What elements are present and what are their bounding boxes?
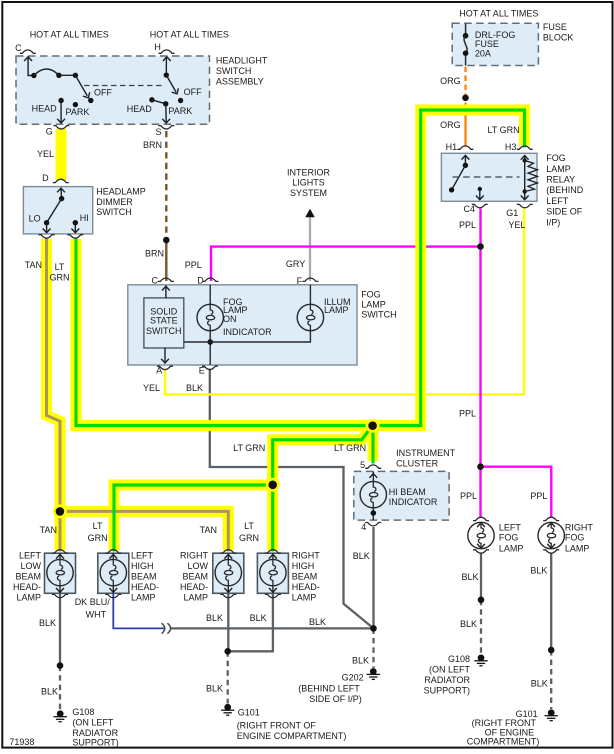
svg-text:BRN: BRN [143,140,162,150]
svg-text:71938: 71938 [9,737,34,747]
splice dot BLK left fog [478,597,485,604]
svg-text:PPL: PPL [185,260,202,270]
svg-text:YEL: YEL [508,220,525,230]
svg-text:C4: C4 [464,204,476,214]
svg-text:FOG: FOG [499,533,519,543]
svg-text:FOG: FOG [546,153,566,163]
link solid state switch to indicator [184,341,210,343]
fuse block box [452,23,538,65]
svg-text:SWITCH: SWITCH [146,326,182,336]
inline connector [162,623,171,633]
output line to S [165,104,167,123]
svg-text:HEADLIGHT: HEADLIGHT [216,56,268,66]
headlight switch internal: right feed arrow H [165,57,167,75]
svg-text:ASSEMBLY: ASSEMBLY [216,77,264,87]
svg-text:INDICATOR: INDICATOR [223,327,272,337]
svg-text:DK BLU/: DK BLU/ [75,597,111,607]
wire PPL relay C4 down to left fog lamp [479,209,481,518]
svg-text:SWITCH: SWITCH [361,310,397,320]
interior lights system arrow [305,209,315,217]
svg-text:D: D [42,173,49,183]
highlight band TAN wires [47,239,229,550]
svg-text:RADIATOR: RADIATOR [424,675,470,685]
svg-text:RIGHT: RIGHT [180,550,209,560]
svg-text:LT: LT [244,521,254,531]
svg-text:GRN: GRN [239,533,259,543]
svg-text:HI: HI [80,213,89,223]
wire BLK right high beam down [228,594,273,652]
svg-text:LEFT: LEFT [131,550,154,560]
svg-text:HEAD-: HEAD- [292,582,320,592]
svg-text:LAMP: LAMP [183,592,208,602]
relay wiper arm [452,165,466,190]
svg-text:LAMP: LAMP [324,305,349,315]
svg-text:C: C [152,276,159,286]
svg-text:RIGHT: RIGHT [292,550,321,560]
splice dot TAN low beams [53,504,67,518]
indicator junction dot [207,339,213,345]
svg-text:PARK: PARK [168,106,192,116]
splice dot BLK G202 [370,625,377,632]
wire LT GRN branch to high beams [114,426,372,552]
svg-text:FUSE: FUSE [543,22,567,32]
svg-text:LT GRN: LT GRN [488,125,520,135]
fuse DRL-FOG 20A element [463,33,469,39]
svg-text:G: G [46,126,53,136]
svg-text:HEAD: HEAD [32,103,58,113]
svg-text:PPL: PPL [530,491,547,501]
terminal D fog switch [202,278,218,281]
hi beam indicator bulb [372,471,374,481]
terminal 4 [365,523,381,526]
wire BLK right low beam down [227,594,229,652]
svg-text:BLK: BLK [186,383,203,393]
relay pivot dot [463,163,468,168]
headlamp dimmer switch box [23,187,92,234]
svg-text:HOT AT ALL TIMES: HOT AT ALL TIMES [459,8,538,18]
svg-text:DIMMER: DIMMER [96,197,133,207]
contact dot [56,73,61,78]
splice dot ORG [462,95,469,102]
svg-text:HI BEAM: HI BEAM [389,487,426,497]
wire TAN dimmer LO to low beams [47,239,229,552]
terminal LO output [39,235,55,238]
terminal G1 [517,204,533,207]
svg-text:20A: 20A [475,49,491,59]
svg-text:LAMP: LAMP [361,300,386,310]
svg-text:LO: LO [29,214,41,224]
wire LT GRN dimmer HI to relay H3 [76,110,525,426]
svg-text:STATE: STATE [150,316,178,326]
svg-text:ORG: ORG [440,120,461,130]
wire BLK instrument cluster 4 down [372,527,374,628]
fog lamp switch box [128,285,357,365]
svg-text:OFF: OFF [94,88,112,98]
svg-text:RIGHT: RIGHT [565,523,594,533]
wire BLK connector to splice [171,627,374,629]
wire PPL to fog switch D [211,247,481,281]
svg-text:G202: G202 [342,673,364,683]
relay actuation dashed link [453,176,520,178]
svg-text:LEFT: LEFT [546,196,569,206]
svg-text:PPL: PPL [459,408,476,418]
svg-text:COMPARTMENT): COMPARTMENT) [467,737,540,747]
svg-text:BLK: BLK [530,565,547,575]
svg-text:YEL: YEL [143,383,160,393]
highlight band LT GRN wires [76,110,525,550]
terminal C fog switch [158,278,174,281]
splice dot BLK left low [57,662,64,669]
svg-text:GRN: GRN [50,273,70,283]
svg-text:INTERIOR: INTERIOR [287,167,331,177]
svg-text:LAMP: LAMP [499,544,524,554]
svg-text:PPL: PPL [460,491,477,501]
svg-text:LAMP: LAMP [546,164,571,174]
OFF contact dot [88,98,93,103]
svg-text:LEFT: LEFT [19,550,42,560]
link indicator to illum lamp [210,330,310,342]
relay coil [524,156,526,199]
illum lamp bulb [309,285,311,305]
svg-text:H: H [154,42,161,52]
wire BLK left low beam down [59,594,61,666]
right low beam headlamp box [213,553,244,593]
splice dot LT GRN main [366,419,380,433]
left high beam headlamp box [98,553,129,593]
svg-text:LT GRN: LT GRN [334,443,366,453]
fog switch C line to solid state switch [165,286,167,298]
svg-text:BEAM: BEAM [292,571,318,581]
splice dot BLK right fog [548,647,555,654]
svg-text:HIGH: HIGH [131,561,154,571]
svg-text:(ON LEFT: (ON LEFT [429,665,471,675]
svg-text:BLK: BLK [462,572,479,582]
svg-text:HEADLAMP: HEADLAMP [96,187,146,197]
relay contact dot [449,187,454,192]
svg-text:BLK: BLK [206,613,223,623]
lamp box terminals [52,550,68,553]
HI contact dot [73,220,78,225]
terminal A fog switch [157,366,173,369]
wire BLK dashed left fog to G108 [480,600,482,654]
svg-text:HOT AT ALL TIMES: HOT AT ALL TIMES [150,29,229,39]
svg-text:LAMP: LAMP [16,592,41,602]
left high beam headlamp bulb [112,553,114,593]
wiper arm to OFF [75,75,87,96]
svg-text:RELAY: RELAY [546,175,575,185]
svg-text:BLK: BLK [460,619,477,629]
svg-text:LAMP: LAMP [292,592,317,602]
svg-text:SIDE OF: SIDE OF [546,207,583,217]
svg-text:WHT: WHT [86,610,107,620]
svg-text:LEFT: LEFT [499,523,522,533]
svg-text:LAMP: LAMP [565,544,590,554]
terminal H1 [457,146,473,149]
svg-text:G108: G108 [72,707,94,717]
right fog lamp [547,523,555,527]
svg-text:LT GRN: LT GRN [233,443,265,453]
ground G202 [367,668,380,679]
svg-text:4: 4 [361,522,366,532]
relay switch feed H1 [464,156,466,166]
splice dot LT GRN high beams [266,478,280,492]
svg-text:BLK: BLK [531,678,548,688]
splice dot BRN [163,237,170,244]
svg-text:C: C [15,43,22,53]
svg-text:FOG: FOG [361,290,381,300]
svg-text:HEAD: HEAD [127,104,153,114]
svg-text:ENGINE COMPARTMENT): ENGINE COMPARTMENT) [237,731,347,741]
svg-text:RADIATOR: RADIATOR [72,728,118,738]
svg-text:GRN: GRN [88,533,108,543]
splice dot PPL upper [477,243,484,250]
svg-text:LAMP: LAMP [131,592,156,602]
svg-text:H1: H1 [446,142,458,152]
wiper arm to OFF [166,75,176,92]
svg-text:5: 5 [360,460,365,470]
terminal S [158,126,174,129]
svg-text:BLK: BLK [352,656,369,666]
svg-text:LIGHTS: LIGHTS [292,178,325,188]
svg-text:PPL: PPL [459,220,476,230]
contact dot [31,73,36,78]
PARK contact dot [73,102,78,107]
dimmer switch internal arrow [60,188,63,198]
wire PPL branch to right fog lamp [481,467,552,518]
svg-text:F: F [297,276,303,286]
fog lamp relay box [441,153,537,201]
headlight switch internal: left feed arrow C [28,57,31,76]
fuse internal wire bottom [465,56,467,66]
svg-text:(RIGHT FRONT OF: (RIGHT FRONT OF [237,721,317,731]
svg-text:HEAD-: HEAD- [13,582,41,592]
svg-text:HIGH: HIGH [292,561,315,571]
wire BLK dashed to G202 [372,628,374,668]
terminal F fog switch [302,278,318,281]
terminal G [53,126,69,129]
svg-text:SUPPORT): SUPPORT) [424,685,470,695]
svg-text:TAN: TAN [40,525,57,535]
wire ORG junction to relay H1 [464,104,466,147]
terminal HI output [67,235,83,238]
svg-text:(BEHIND: (BEHIND [546,185,584,195]
svg-text:PARK: PARK [66,107,90,117]
svg-text:G101: G101 [238,708,260,718]
svg-text:G1: G1 [506,208,518,218]
HI output line [74,223,76,233]
wiper bar [59,74,76,76]
svg-text:FOG: FOG [565,533,585,543]
svg-text:TAN: TAN [200,525,217,535]
fuse internal wire top [465,23,467,33]
PARK contact dot [163,101,168,106]
left low beam headlamp box [45,553,76,593]
left low beam headlamp bulb [59,553,61,593]
svg-text:INDICATOR: INDICATOR [389,497,438,507]
svg-text:A: A [156,365,162,375]
wire BRN headlight switch S to fog switch C [165,131,167,238]
ground G108 right [474,655,487,666]
splice dot BLK right beams [224,648,231,655]
terminal H [159,50,175,53]
svg-text:BEAM: BEAM [182,571,208,581]
fog switch A line from solid state switch [164,348,166,364]
wire BLK dashed right fog to G101 [550,650,552,709]
svg-text:HOT AT ALL TIMES: HOT AT ALL TIMES [30,29,109,39]
svg-text:TAN: TAN [25,260,42,270]
svg-text:SWITCH: SWITCH [216,66,252,76]
svg-text:SUPPORT): SUPPORT) [72,738,118,748]
svg-text:BLK: BLK [206,684,223,694]
svg-text:CLUSTER: CLUSTER [396,459,439,469]
svg-text:I/P): I/P) [546,217,560,227]
ground G108 left [54,710,67,721]
terminal D dimmer [53,179,69,182]
svg-text:YEL: YEL [37,149,54,159]
wire DK BLU/WHT left high beam [113,594,164,629]
svg-text:LT: LT [55,262,65,272]
crossover hump [34,69,59,76]
svg-text:H3: H3 [505,142,517,152]
svg-text:OFF: OFF [184,87,202,97]
svg-text:INSTRUMENT: INSTRUMENT [396,448,455,458]
wire LT GRN branch to instrument cluster 5 [371,426,374,464]
svg-text:BLK: BLK [250,613,267,623]
svg-text:SIDE OF I/P): SIDE OF I/P) [309,694,362,704]
wire GRY fog switch F to interior lights [309,217,311,281]
svg-text:GRY: GRY [286,259,305,269]
svg-text:BEAM: BEAM [15,571,41,581]
svg-text:D: D [197,276,204,286]
splice dot PPL fog lamps [477,463,484,470]
svg-text:LOW: LOW [20,561,41,571]
right low beam headlamp bulb [227,553,229,593]
svg-text:BEAM: BEAM [131,571,157,581]
svg-text:E: E [199,365,205,375]
fog lamp on indicator bulb [209,285,211,305]
LO output line [46,223,48,233]
output line to G [60,101,62,123]
svg-text:SWITCH: SWITCH [96,207,132,217]
headlight switch assembly box [16,56,210,124]
solid state switch box [144,298,184,348]
wire BLK dashed to G101 [227,651,229,703]
wire BLK dashed to G108 [59,666,61,710]
svg-text:BRN: BRN [145,249,164,259]
wire BLK right fog lamp down [550,553,552,650]
svg-text:LT: LT [93,521,103,531]
svg-text:SYSTEM: SYSTEM [290,188,327,198]
right high beam headlamp box [257,553,288,593]
right high beam headlamp bulb [272,553,274,593]
svg-text:LOW: LOW [187,561,208,571]
terminal C [20,50,36,53]
terminal 5 [365,465,381,468]
wire ORG fuse to junction [464,67,466,105]
wiper arm to LO [47,199,62,223]
wire BLK fog switch E to splice [210,369,374,629]
pivot dot [73,73,78,78]
instrument cluster box [354,471,449,520]
svg-text:HEAD-: HEAD- [180,582,208,592]
relay C4 output arrow [478,187,482,191]
mechanical link dashed [84,85,162,87]
svg-text:S: S [156,127,162,137]
HEAD contact dot [149,97,154,102]
HEAD-PARK link [152,100,166,104]
svg-text:BLK: BLK [353,551,370,561]
svg-text:(ON LEFT: (ON LEFT [72,718,114,728]
terminal H3 [517,146,533,149]
svg-text:(BEHIND LEFT: (BEHIND LEFT [298,684,360,694]
wire BLK left fog lamp down [480,553,482,600]
wire YEL fog switch A to relay G1 [165,209,524,395]
svg-text:G108: G108 [448,654,470,664]
highlight band YEL wire G to D [56,129,67,180]
svg-text:BLK: BLK [41,686,58,696]
svg-text:ON: ON [223,314,237,324]
svg-text:BLK: BLK [309,617,326,627]
terminal E fog switch [202,366,218,369]
svg-text:BLOCK: BLOCK [543,32,574,42]
ground G101 left [221,704,234,715]
svg-text:ORG: ORG [440,76,461,86]
svg-text:HEAD-: HEAD- [131,582,159,592]
svg-text:BLK: BLK [39,618,56,628]
ground G101 right [545,709,558,720]
HEAD contact dot [58,98,63,103]
pivot dot [164,72,169,77]
pivot dot [59,196,64,201]
left fog lamp [477,523,485,527]
terminal C4 [472,204,488,207]
OFF contact dot [178,98,183,103]
LO contact dot [44,220,49,225]
